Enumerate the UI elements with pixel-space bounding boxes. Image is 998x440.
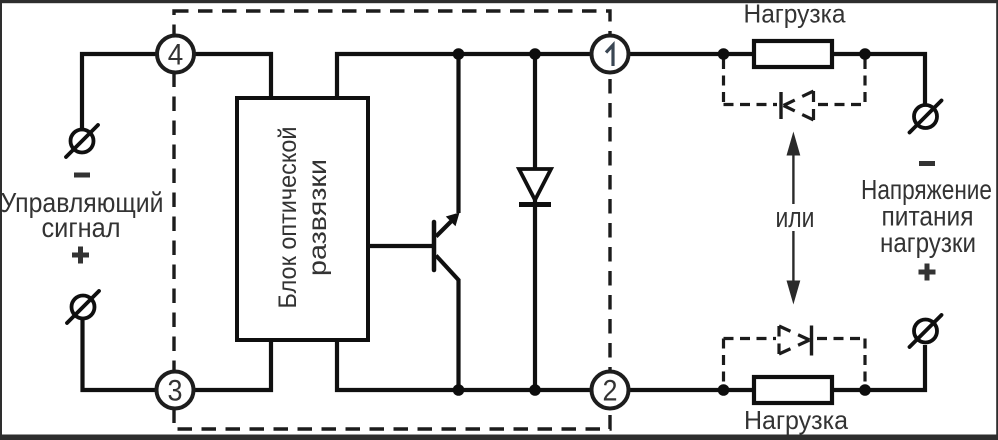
diode VD3 (alternative polarity, bottom, dashed) (779, 326, 812, 356)
svg-text:Нагрузка: Нагрузка (744, 0, 847, 29)
supply terminal plus (circle with slash) (910, 315, 942, 347)
svg-text:4: 4 (168, 39, 184, 72)
transistor VT1 collector diagonal with arrow (436, 222, 451, 237)
optocoupler block U1 (237, 98, 368, 340)
svg-text:нагрузки: нагрузки (880, 227, 976, 258)
or-arrow upper head (787, 132, 801, 156)
wire: control plus terminal to pin 3 (83, 320, 158, 390)
junction dot: bottom load right (859, 384, 871, 396)
optocoupler block label (274, 127, 332, 309)
plus sign (supply side) (919, 264, 936, 281)
diode VD1 cathode bar (519, 202, 551, 207)
minus sign (supply side) (919, 161, 935, 166)
or-arrow upper shaft (792, 152, 794, 204)
diode VD2 (alternative polarity, top, dashed) (781, 91, 814, 120)
pin 4 (157, 36, 194, 73)
diode VD1 triangle (519, 169, 551, 200)
wire: control minus terminal to pin 4 (82, 54, 157, 128)
transistor VT1 base bar (432, 222, 437, 270)
control terminal plus (circle with slash) (67, 291, 99, 323)
dashed box around top protection diode (724, 59, 866, 105)
minus sign (control side) (74, 173, 90, 178)
pin 2 (592, 372, 629, 409)
svg-text:развязки: развязки (304, 159, 332, 276)
svg-text:Нагрузка: Нагрузка (744, 405, 849, 435)
control terminal minus (circle with slash) (66, 125, 98, 157)
pin 1 (592, 36, 629, 73)
or-arrow lower head (787, 281, 801, 305)
svg-text:сигнал: сигнал (42, 212, 121, 243)
wire: freewheeling diode branch (533, 54, 537, 390)
supply terminal minus (circle with slash) (910, 101, 942, 133)
load resistor (top) (754, 41, 832, 67)
pin 3 (157, 372, 194, 409)
junction dot: emitter / bottom rail (453, 384, 465, 396)
junction dot: diode top / top rail (529, 48, 541, 60)
transistor VT1 emitter lead (456, 279, 460, 390)
wire: pin 4 to optocoupler top-left leg (194, 54, 271, 99)
wire: pin 1 to load and supply terminal (top) (630, 54, 925, 104)
dashed enclosure (solid-state relay boundary) (174, 11, 610, 429)
wire: optocoupler bottom-right leg to pin 2 (337, 339, 591, 390)
svg-text:Блок оптической: Блок оптической (274, 127, 302, 309)
or-arrow lower shaft (792, 231, 794, 283)
wire: pin 2 to load and supply terminal (bottom) (630, 345, 925, 390)
wire: optocoupler top-right leg to pin 1 (337, 54, 591, 99)
junction dot: diode bottom / bottom rail (529, 384, 541, 396)
junction dot: top load left (718, 48, 730, 60)
wire: pin 3 to optocoupler bottom-left leg (194, 339, 271, 390)
transistor VT1 emitter diagonal (436, 256, 459, 281)
dashed box around bottom protection diode (724, 339, 866, 388)
svg-text:3: 3 (168, 375, 183, 408)
junction dot: top load right (859, 48, 871, 60)
load resistor (bottom) (754, 377, 832, 403)
plus sign (control side) (72, 247, 89, 264)
junction dot: collector / top rail (453, 48, 465, 60)
transistor VT1 base wire (368, 244, 432, 248)
junction dot: bottom load left (718, 384, 730, 396)
svg-text:или: или (776, 202, 815, 234)
svg-text:2: 2 (603, 375, 618, 408)
transistor VT1 collector lead (456, 54, 460, 213)
